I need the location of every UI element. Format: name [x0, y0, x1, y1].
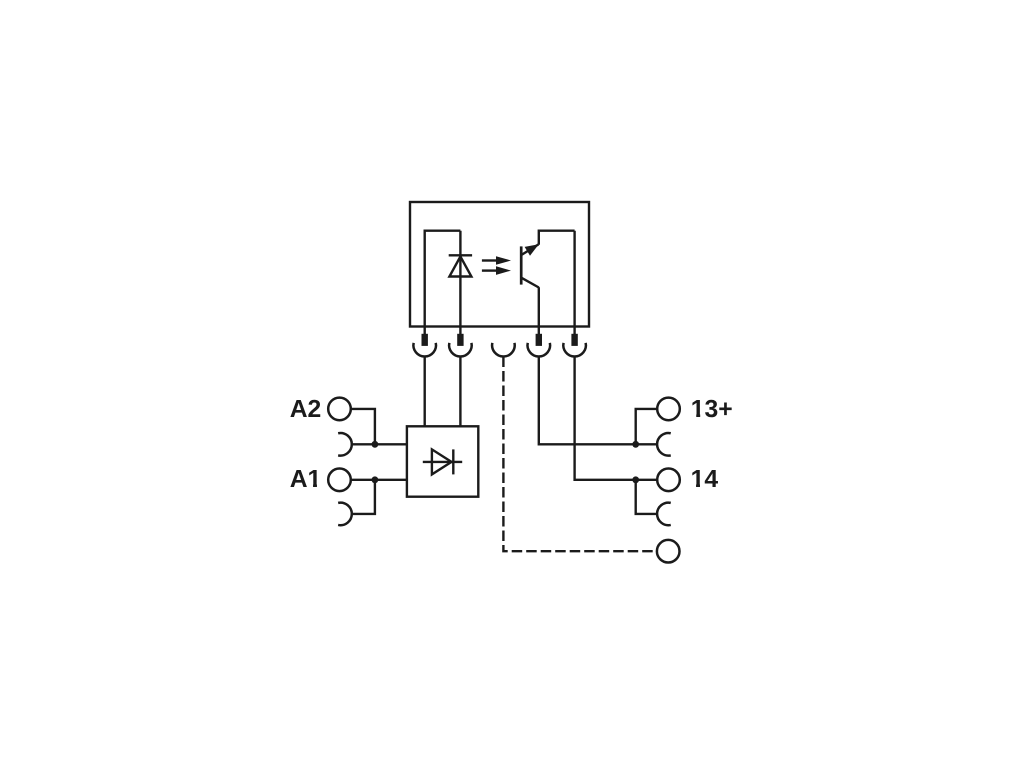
- phototransistor Q1 collector diagonal: [521, 278, 539, 288]
- junction A2: [372, 441, 379, 448]
- wire: 14 junction down to lower socket: [636, 480, 657, 514]
- optocoupler U1 outline: [410, 202, 589, 327]
- wire: top rail down to pin5: [573, 231, 575, 335]
- wire: pin5 down and right to 14 row: [575, 357, 658, 480]
- svg-text:14: 14: [691, 466, 719, 493]
- plug pin 4: [536, 334, 542, 346]
- terminal 13+ circle: [657, 398, 680, 421]
- socket 13+-row arc: [657, 433, 671, 456]
- wire: A2 socket to diode box: [352, 443, 407, 445]
- junction 14: [632, 476, 639, 483]
- phototransistor Q1 emitter diagonal with arrow: [521, 244, 539, 256]
- label A1: [290, 466, 322, 493]
- LED D1 triangle: [449, 257, 471, 277]
- terminal A2 circle: [328, 398, 351, 421]
- phototransistor Q1 base bar: [520, 246, 523, 284]
- terminal A1 circle: [328, 469, 351, 492]
- socket 5: [563, 343, 586, 357]
- light arrow 1: [482, 256, 511, 265]
- wire: A1 to diode box: [351, 479, 407, 481]
- wire: 13+ circle to junction: [636, 409, 658, 444]
- diode D2 triangle: [432, 449, 452, 474]
- label 13+: [691, 396, 733, 423]
- socket 4: [528, 343, 551, 357]
- junction A1: [372, 476, 379, 483]
- junction 13+: [632, 441, 639, 448]
- svg-text:A2: A2: [290, 396, 322, 423]
- terminal 14 circle: [657, 469, 680, 492]
- wire: LED branch down to pin2: [459, 231, 461, 335]
- socket 2: [449, 343, 472, 357]
- diode D2 line: [423, 461, 462, 463]
- light arrow 2: [482, 266, 511, 275]
- wire: A2 to junction: [351, 409, 375, 444]
- socket 14-row arc: [657, 503, 671, 526]
- wire: pin1 up to LED cathode top rail: [425, 231, 461, 335]
- svg-text:13+: 13+: [691, 396, 733, 423]
- wire: pin4 down and right to 13+ row: [539, 357, 657, 445]
- socket 3 (unplugged): [492, 343, 515, 357]
- socket A2-row arc: [338, 433, 352, 456]
- wire: emitter corner up to top rail: [539, 231, 575, 245]
- diode D2 cathode bar: [452, 449, 454, 474]
- wire: socket2 down to diode box: [459, 357, 461, 427]
- plug pin 5: [571, 334, 577, 346]
- socket 1: [413, 343, 436, 357]
- plug pin 1: [422, 334, 428, 346]
- socket A1-row arc: [338, 503, 352, 526]
- plug pin 2: [457, 334, 463, 346]
- wire: A1 junction down to lower socket: [352, 480, 375, 514]
- diode box: [407, 426, 478, 496]
- bottom-right terminal circle: [657, 540, 680, 563]
- wire: socket1 down to diode box: [424, 357, 426, 427]
- svg-text:A1: A1: [290, 466, 322, 493]
- label A2: [290, 396, 322, 423]
- label 14: [691, 466, 719, 493]
- wire: collector down to pin4: [538, 287, 540, 335]
- dashed wire: socket3 to bottom-right terminal: [503, 357, 657, 552]
- LED D1 cathode bar: [449, 254, 472, 256]
